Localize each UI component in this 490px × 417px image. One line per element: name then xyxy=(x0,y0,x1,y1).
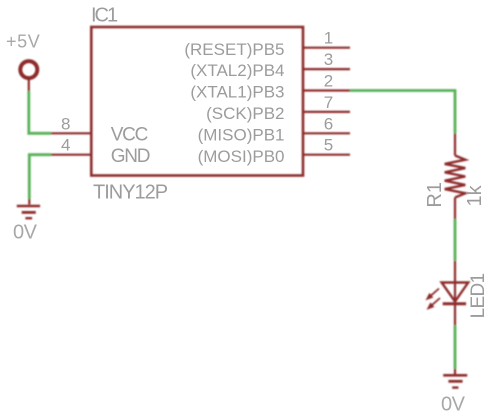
svg-text:5: 5 xyxy=(324,136,333,155)
pin 7 xyxy=(304,111,350,113)
svg-text:TINY12P: TINY12P xyxy=(93,181,168,203)
pin 6 xyxy=(304,132,350,134)
svg-text:6: 6 xyxy=(324,114,333,133)
wire red stub above right ground xyxy=(454,369,456,374)
svg-text:0V: 0V xyxy=(13,222,38,244)
svg-text:VCC: VCC xyxy=(111,124,148,145)
wire red stub below +5V xyxy=(28,80,30,91)
ground symbol right xyxy=(443,375,467,387)
ground symbol left xyxy=(17,206,40,218)
svg-text:1k: 1k xyxy=(464,184,486,206)
wire green pin 2 to resistor xyxy=(350,91,455,134)
IC pin labels xyxy=(111,40,285,167)
pin 4 stub xyxy=(51,154,93,156)
resistor R1 xyxy=(445,134,466,220)
+5V supply symbol xyxy=(20,61,37,78)
svg-text:(RESET)PB5: (RESET)PB5 xyxy=(184,40,284,59)
pin numbers xyxy=(61,29,333,155)
svg-text:LED1: LED1 xyxy=(468,274,489,319)
svg-text:GND: GND xyxy=(111,146,150,167)
svg-text:(XTAL2)PB4: (XTAL2)PB4 xyxy=(190,61,284,80)
IC IC1 body xyxy=(91,27,303,176)
svg-text:8: 8 xyxy=(61,114,70,133)
svg-text:0V: 0V xyxy=(441,394,466,416)
svg-text:1: 1 xyxy=(324,29,333,48)
LED light arrows xyxy=(427,289,441,310)
wire green resistor to LED xyxy=(454,219,457,261)
right pin stubs xyxy=(51,48,351,155)
svg-text:R1: R1 xyxy=(424,182,446,208)
wire green from +5V to pin 8 xyxy=(29,91,51,133)
pin 3 xyxy=(304,68,350,70)
svg-text:4: 4 xyxy=(61,136,70,155)
svg-text:7: 7 xyxy=(324,93,333,112)
svg-text:(XTAL1)PB3: (XTAL1)PB3 xyxy=(190,83,284,102)
pin 2 xyxy=(304,89,350,91)
pin 1 xyxy=(304,47,350,49)
svg-text:3: 3 xyxy=(324,50,333,69)
pin 5 xyxy=(304,154,350,156)
wire green LED to ground xyxy=(454,325,457,368)
svg-text:(MISO)PB1: (MISO)PB1 xyxy=(198,125,285,144)
LED LED1 xyxy=(442,261,469,326)
svg-text:IC1: IC1 xyxy=(91,4,118,26)
svg-text:(MOSI)PB0: (MOSI)PB0 xyxy=(198,147,285,166)
wire green from pin 4 to ground xyxy=(29,155,51,199)
svg-text:2: 2 xyxy=(324,72,333,91)
svg-text:(SCK)PB2: (SCK)PB2 xyxy=(206,104,284,123)
wire red stub above left ground xyxy=(28,199,30,205)
pin 8 stub xyxy=(51,132,93,134)
svg-text:+5V: +5V xyxy=(6,31,40,51)
